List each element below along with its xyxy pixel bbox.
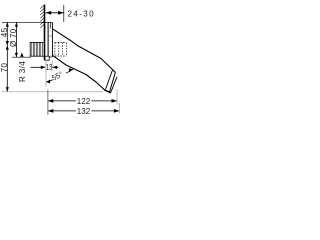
svg-text:45: 45 bbox=[0, 27, 9, 37]
dimension D70 (vertical, second) bbox=[9, 22, 18, 57]
dimension 132 bbox=[48, 103, 120, 116]
wall hatch bbox=[40, 5, 44, 28]
escutcheon bbox=[45, 22, 53, 60]
dimension 24-30 bbox=[46, 5, 95, 22]
svg-text:13: 13 bbox=[46, 63, 53, 72]
dimension 70 (vertical left) bbox=[0, 45, 9, 91]
extension line top (y22) bbox=[2, 21, 52, 23]
hidden bore (dashed) bbox=[55, 43, 66, 57]
55 degree angle bbox=[46, 68, 73, 83]
svg-text:122: 122 bbox=[77, 97, 91, 106]
gray extension: wall face below spout bbox=[45, 60, 47, 87]
threaded nipple bbox=[30, 42, 44, 56]
R 3/4 label + 13 dimension bbox=[18, 53, 58, 82]
extension line for 122/132 bbox=[47, 90, 49, 115]
svg-text:R 3/4: R 3/4 bbox=[18, 61, 27, 82]
dimension 45 (vertical left) bbox=[0, 22, 9, 45]
extension line at y57 (escutcheon bottom) bbox=[12, 56, 31, 58]
dimension 122 bbox=[48, 89, 117, 106]
spout body bbox=[52, 29, 117, 93]
svg-text:24-30: 24-30 bbox=[68, 9, 95, 18]
extension line at y91.5 (outlet level, gray) bbox=[2, 91, 103, 93]
svg-text:70: 70 bbox=[0, 62, 9, 72]
wall surface line bbox=[44, 5, 46, 60]
svg-text:132: 132 bbox=[77, 107, 91, 116]
gray extension: escutcheon front bbox=[51, 60, 53, 72]
svg-text:Ø 70: Ø 70 bbox=[9, 28, 18, 47]
